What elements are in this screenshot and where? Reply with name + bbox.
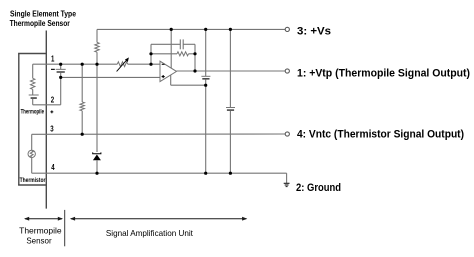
label: Single Element Type (title line 1) — [10, 9, 76, 19]
wire: offset cell to non-inverting node — [60, 73, 62, 78]
wire: capacitor C1 to ground rail — [205, 80, 207, 174]
node: C1 to ground rail — [204, 172, 207, 175]
wire: capacitor C2 to ground rail — [229, 111, 231, 173]
ground symbol — [284, 183, 290, 186]
terminal 3 (+Vs) open circle — [285, 27, 289, 31]
op-amp U1 triangle — [160, 61, 177, 81]
svg-text:Sensor: Sensor — [26, 235, 51, 245]
wire: pin-2 net (pin 2 to offset cell) — [33, 104, 61, 106]
wire: pin-3 corner down to thermistor — [31, 134, 33, 150]
wire: feedback resistor branch right — [189, 53, 196, 55]
feedback capacitor Cf plates — [180, 39, 183, 49]
node: feedback tap on pin-1 net — [149, 63, 152, 66]
node: C2 tap on +Vs rail — [229, 28, 232, 31]
wire: feedback capacitor branch right — [183, 43, 195, 45]
wire: load resistor to Vntc net — [81, 111, 83, 135]
node: feedback to output — [193, 69, 196, 72]
node: bias resistor tap on pin-1 net — [95, 63, 98, 66]
dimension divider line — [64, 210, 66, 246]
pin 2 label — [51, 94, 55, 104]
svg-text:Thermopile Sensor: Thermopile Sensor — [10, 18, 71, 28]
bias resistor R (zigzag) — [95, 42, 99, 52]
wire: feedback left vertical — [150, 44, 152, 64]
label: Sensor (bottom) — [26, 235, 51, 245]
wire: +Vs top rail — [97, 28, 287, 30]
wire: offset node down to pin-2 net — [60, 77, 62, 104]
op-amp non-inverting input plus sign — [162, 75, 165, 78]
capacitor C1 top plate — [201, 75, 210, 77]
svg-text:2: 2 — [51, 94, 55, 104]
svg-text:Signal Amplification Unit: Signal Amplification Unit — [106, 228, 194, 238]
wire: +Vs rail down to capacitor C2 — [229, 29, 231, 107]
wire: zener to ground rail — [96, 160, 98, 173]
thermopile internal resistance (zigzag) — [31, 78, 35, 89]
node: zener to ground rail — [95, 172, 98, 175]
svg-text:Thermopile: Thermopile — [19, 226, 62, 236]
capacitor C2 thick plate — [227, 109, 234, 111]
trimmer adjustment arrow — [117, 57, 129, 71]
feedback resistor Rf (zigzag) — [177, 52, 189, 56]
capacitor C1 thick plate — [202, 78, 209, 80]
node: offset cell tap on pin-1 net — [59, 63, 62, 66]
pin 3 label — [50, 124, 54, 134]
sensor package right edge / pin strip line — [45, 31, 47, 209]
wire: thermopile top lead — [32, 64, 34, 78]
thermistor zigzag inside circle — [30, 151, 33, 157]
wire: op-amp V- pin down — [170, 75, 172, 85]
thermopile plus polarity mark — [50, 110, 53, 113]
label: 2: Ground — [296, 182, 341, 194]
label: Thermopile (bottom) — [19, 226, 62, 236]
wire: non-inverting input net — [61, 76, 160, 78]
dimension arrow: thermopile sensor extent — [24, 217, 63, 221]
wire: op-amp V- to ground branch — [171, 84, 206, 86]
thermopile cell symbol (long plate) — [29, 94, 39, 96]
offset cell long plate — [56, 68, 66, 70]
pin 1 label — [51, 54, 55, 64]
wire: feedback right vertical to output — [194, 44, 196, 71]
wire: bias resistor to pin-1 net — [96, 52, 98, 64]
svg-text:Thermistor: Thermistor — [20, 177, 46, 184]
offset cell thick plate — [57, 71, 65, 73]
wire: thermistor down to pin-4 / ground — [31, 157, 33, 173]
wire: pin-1 net right segment (trimmer to op-amp inverting input) — [128, 63, 160, 65]
svg-text:2: Ground: 2: Ground — [296, 182, 341, 194]
wire: +Vs rail down to capacitor C1 — [205, 29, 207, 76]
wire: pin-1 net left segment (pin 1 to trimmer) — [33, 63, 118, 65]
node: feedback resistor left junction — [149, 52, 152, 55]
wire: ground rail — [32, 172, 287, 174]
capacitor C2 top plate — [226, 107, 235, 109]
label: Signal Amplification Unit — [106, 228, 194, 238]
wire: ground rail drop to ground symbol — [286, 173, 288, 183]
wire: cell to pin-2 net — [32, 99, 34, 105]
node: C2 to ground rail — [229, 172, 232, 175]
wire: feedback capacitor branch left — [151, 43, 180, 45]
label: 4: Vntc (Thermistor Signal Output) — [297, 129, 464, 141]
wire: op-amp V+ supply from top rail — [170, 29, 172, 68]
offset cell minus mark — [51, 69, 55, 70]
wire: feedback resistor branch left — [151, 53, 177, 55]
svg-text:3: +Vs: 3: +Vs — [297, 26, 331, 38]
pin 4 label — [51, 162, 55, 172]
svg-text:4: 4 — [51, 162, 55, 172]
node: V+ tap on +Vs rail — [170, 28, 173, 31]
wire: Vntc net (pin 3 to terminal) — [32, 133, 287, 135]
node: load resistor tap on pin-1 net — [81, 63, 84, 66]
label: Thermopile Sensor (title line 2) — [10, 18, 71, 28]
svg-text:1: +Vtp (Thermopile Signal Out: 1: +Vtp (Thermopile Signal Output) — [297, 67, 470, 79]
svg-text:1: 1 — [51, 54, 55, 64]
node: C1 tap on +Vs rail — [204, 28, 207, 31]
sensor package top edge — [18, 53, 46, 55]
label: Thermopile (inside package) — [21, 109, 45, 116]
node: load resistor to Vntc net — [81, 133, 84, 136]
svg-text:4: Vntc (Thermistor Signal Out: 4: Vntc (Thermistor Signal Output) — [297, 129, 464, 141]
svg-text:3: 3 — [50, 124, 54, 134]
terminal 4 (Vntc) open circle — [285, 132, 289, 136]
dimension arrow: signal amplification unit extent — [70, 217, 247, 221]
terminal 1 (+Vtp) open circle — [285, 69, 289, 73]
label: 1: +Vtp (Thermopile Signal Output) — [297, 67, 470, 79]
sensor package left edge — [18, 54, 20, 186]
wire: top rail corner down to bias resistor — [96, 29, 98, 42]
node: offset cell to non-inverting net — [59, 76, 62, 79]
label: Thermistor (inside package) — [20, 177, 46, 184]
wire: op-amp output to +Vtp terminal — [177, 70, 287, 72]
svg-text:Thermopile: Thermopile — [21, 109, 45, 116]
node: V- ground junction — [204, 84, 207, 87]
wire: offset cell stub from pin-1 net — [60, 64, 62, 69]
label: 3: +Vs — [297, 26, 331, 38]
wire: resistor to cell — [32, 89, 34, 95]
wire: pin-1 net to load resistor — [81, 64, 83, 102]
thermistor load resistor (zigzag) — [80, 102, 84, 111]
sensor package bottom edge — [18, 184, 46, 186]
zener diode D1 cathode bar — [93, 152, 101, 153]
thermopile cell symbol (thick short plate) — [31, 97, 37, 99]
trimmer resistor VR zigzag — [117, 62, 127, 67]
thermistor circle — [28, 150, 35, 157]
node: feedback resistor right junction — [193, 52, 196, 55]
zener diode D1 anode triangle — [93, 155, 101, 161]
op-amp inverting input minus sign — [162, 64, 165, 65]
wire: pin-1 net down to zener (crosses nets) — [96, 64, 98, 152]
